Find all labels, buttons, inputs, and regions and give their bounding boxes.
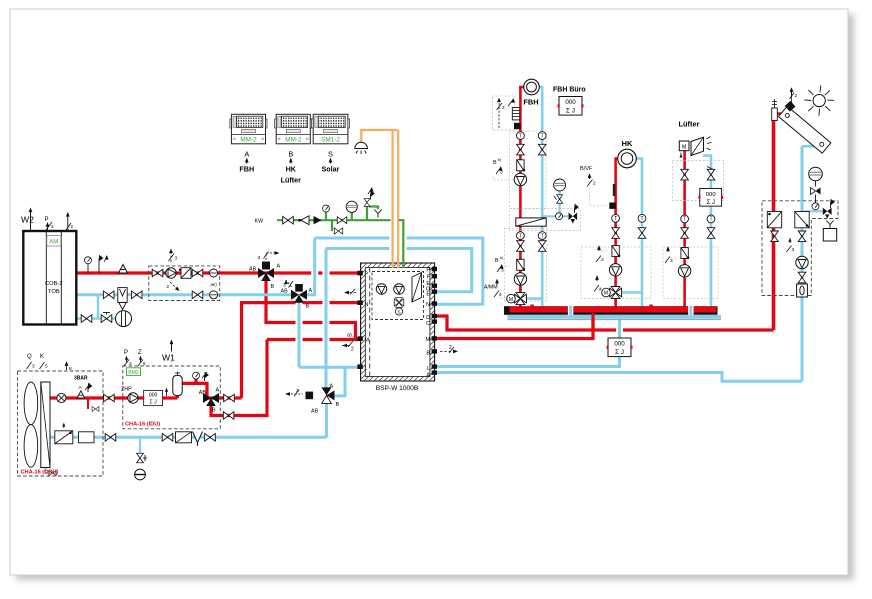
svg-text:M: M (509, 297, 513, 303)
svg-text:A: A (330, 384, 334, 390)
thermometer HK return (638, 214, 646, 222)
valve solar vessel (811, 188, 816, 195)
svg-text:a): a) (347, 333, 352, 339)
FBH overflow coil (512, 108, 519, 120)
valve Lüfter return top (707, 169, 715, 180)
svg-text:N: N (365, 302, 369, 308)
label HK 3 (598, 246, 600, 251)
svg-text:P: P (365, 272, 369, 278)
wire orange vertical 1 (389, 228, 395, 260)
thermometer FBH supply (517, 132, 525, 140)
svg-text:2: 2 (449, 345, 452, 351)
svg-text:B: B (426, 351, 430, 357)
check valve HK (612, 246, 620, 258)
svg-text:P: P (124, 350, 128, 356)
wire HK blue riser (636, 159, 642, 307)
svg-text:3: 3 (175, 256, 178, 261)
wire KW funnel elbow (369, 207, 378, 210)
valve ODU out (104, 394, 115, 402)
wire tank inner pump2 feed (388, 277, 412, 309)
funnel KW (374, 210, 382, 218)
valve Lüfter return (707, 228, 715, 239)
tank stratifier (412, 273, 422, 303)
svg-text:2: 2 (71, 224, 74, 229)
boiler gauge stub (87, 264, 89, 273)
valve Lüfter supply top (681, 169, 689, 180)
drain valve 3bar (92, 407, 99, 412)
tank right ports (432, 267, 437, 375)
wire ODU coil drain (46, 468, 48, 474)
svg-text:AB: AB (281, 289, 289, 295)
collector sensor diamond (785, 101, 796, 112)
manifold blue bar (508, 315, 722, 319)
valve boiler drain (81, 315, 92, 323)
motor M HK (602, 288, 611, 297)
meter IDU (142, 390, 163, 405)
zone box FBH upper (510, 131, 547, 209)
safety blue link (802, 210, 823, 212)
wire KW safety stub (366, 206, 368, 220)
gauge FBH (556, 213, 563, 220)
svg-text:N: N (426, 302, 430, 308)
node 2 boiler (67, 214, 69, 231)
svg-text:C: C (426, 321, 430, 327)
svg-text:3: 3 (792, 247, 795, 253)
valve solar red (771, 231, 779, 242)
meter Lüfter (698, 188, 723, 206)
wire KW drain stub (331, 220, 333, 231)
wire Lüfter blue riser (703, 156, 711, 307)
manifold black base (504, 306, 718, 315)
wire 3bar stub (87, 398, 89, 409)
wire tank A long return (436, 373, 802, 382)
tank right letters (426, 268, 431, 379)
svg-text:A: A (244, 150, 249, 159)
check valve HP return 1 (55, 431, 73, 444)
module MM-2 FBH (230, 114, 267, 144)
check valve KW (298, 219, 301, 222)
wire tank L left line (299, 366, 361, 369)
wire manifold to heat meter (618, 319, 621, 339)
wire FBH side branch (542, 215, 568, 217)
valve FBH supply (517, 144, 525, 155)
svg-text:Lüfter: Lüfter (281, 176, 302, 185)
svg-text:3: 3 (258, 255, 261, 261)
valve KW drain (334, 228, 342, 234)
leader B/VF to HK sensor (590, 188, 609, 206)
manifold red bar (510, 307, 717, 313)
zone box FBH lower (505, 229, 547, 302)
zone box Lüfter valves (673, 161, 724, 201)
tank left letters (365, 272, 370, 372)
wire green overlay tank top (402, 262, 404, 268)
filter HP return 2 (176, 432, 192, 443)
svg-text:BM2: BM2 (128, 370, 139, 376)
valve Lüfter supply (681, 228, 689, 239)
pump FBH primary (514, 173, 526, 185)
wire big blue vertical to V3.A (325, 249, 328, 390)
svg-text:S: S (397, 310, 400, 315)
IDU vent arrow (166, 389, 168, 397)
wire boiler return (77, 293, 293, 296)
thermometer HK supply (612, 214, 620, 222)
svg-text:4: 4 (499, 292, 502, 298)
svg-text:Z: Z (138, 350, 142, 356)
ODU drain valve (49, 470, 56, 475)
filter KW (314, 216, 322, 224)
valve V4.B shutoff (223, 412, 234, 420)
svg-text:4: 4 (599, 287, 602, 293)
svg-text:CHA-16 (IDU): CHA-16 (IDU) (125, 422, 160, 428)
pump FBH sec (514, 273, 526, 285)
svg-text:FBH: FBH (239, 165, 254, 174)
zone box FBH top (493, 96, 516, 130)
pump ZHP (128, 393, 138, 403)
check valve FBH sec (517, 259, 525, 271)
wire V3.B branch (334, 367, 345, 396)
gauge HP drain (135, 469, 146, 480)
wire IDU gauge stub (194, 379, 197, 384)
svg-text:Q: Q (27, 354, 32, 360)
valve KW 2 (337, 217, 347, 224)
air separator solar (772, 108, 778, 121)
valve boiler return 1 (103, 291, 114, 299)
vessel FBH (554, 179, 566, 191)
manifold blue crossing 2 (688, 306, 693, 316)
svg-text:2: 2 (593, 181, 596, 187)
wire orange vertical 2 (395, 228, 401, 260)
tank B arrow 2 (440, 350, 456, 352)
svg-text:W1: W1 (162, 353, 175, 363)
svg-text:S: S (328, 150, 333, 159)
wire solar module lamp link (361, 130, 398, 146)
svg-text:3: 3 (32, 364, 35, 369)
svg-text:ae): ae) (210, 282, 217, 287)
svg-text:3: 3 (501, 268, 504, 274)
svg-text:B: B (336, 402, 340, 408)
drain vessel solar (823, 229, 836, 242)
wire V3.AB drop (325, 401, 328, 437)
svg-text:FBH Büro: FBH Büro (553, 87, 586, 94)
module MM-2 HK (275, 114, 312, 144)
manifold red nub 1 (530, 305, 534, 308)
valve V1 (258, 268, 274, 281)
mixing valve FBH (514, 293, 526, 305)
svg-text:B: B (212, 408, 216, 414)
collector panel (779, 106, 831, 153)
wire V1.B drop (266, 279, 356, 339)
tank inner module box (372, 272, 424, 320)
wire second blue loop to tank E right (326, 249, 472, 292)
svg-text:E: E (426, 292, 430, 298)
svg-text:A: A (309, 288, 313, 294)
manifold shadow line (508, 319, 722, 321)
valve HP return 2 (162, 434, 173, 442)
svg-text:3: 3 (129, 361, 132, 366)
tank left ports (357, 271, 362, 369)
fan coil M box (679, 141, 689, 151)
valve V2 (291, 290, 307, 303)
tank wall (361, 263, 435, 381)
svg-text:8: 8 (69, 366, 72, 371)
leader FBH 4 (500, 292, 505, 299)
wire HK mix link (621, 291, 642, 294)
wire tank N line (242, 303, 362, 398)
tank mixing valve (394, 298, 404, 308)
svg-text:M: M (682, 145, 686, 151)
thermometer FBH return (538, 132, 546, 140)
safety valve solar (823, 208, 827, 215)
IDU box (123, 366, 221, 429)
svg-text:B/VF: B/VF (580, 166, 593, 172)
gauge boiler supply (85, 257, 92, 264)
svg-text:KW: KW (255, 219, 263, 225)
safety flag boiler (98, 264, 100, 273)
wire manifold to tank M (436, 314, 593, 339)
svg-text:2: 2 (167, 284, 170, 289)
safety valve A boiler (119, 265, 128, 274)
check valve mixer (181, 268, 191, 279)
valve boiler return 2 (131, 291, 142, 299)
tank M arrow 2 (342, 341, 353, 347)
svg-text:HK: HK (622, 139, 633, 148)
leader FBH 3 (493, 177, 514, 180)
wire FBH blue riser (539, 87, 542, 307)
leader FBH lower 3 (505, 265, 513, 267)
FBH circle symbol (524, 79, 540, 95)
valve HK return (638, 228, 646, 239)
svg-text:ZHP: ZHP (121, 387, 132, 393)
collector vent arrow 2 (791, 88, 793, 95)
svg-text:A: A (426, 373, 430, 379)
valve solar blue (798, 231, 806, 242)
gauge IDU (193, 372, 200, 379)
valve V4 (203, 393, 219, 406)
manifold red nub 2 (649, 305, 653, 308)
wire solar blue riser (801, 146, 804, 381)
manifold blue crossing 1 (568, 306, 573, 316)
valve HP return 1 (105, 434, 116, 442)
svg-text:B: B (271, 284, 275, 290)
funnel solar (826, 221, 833, 229)
valve V4.A shutoff (224, 394, 235, 402)
pump solar (796, 256, 808, 268)
tank pump 1 (376, 284, 387, 295)
svg-text:3: 3 (500, 170, 503, 176)
water meter (116, 311, 132, 327)
vessel IDU (173, 376, 182, 396)
svg-text:2: 2 (795, 93, 798, 99)
zone box Lüfter lower (663, 247, 718, 299)
wire tank M line (267, 338, 361, 341)
svg-text:A: A (277, 264, 281, 270)
svg-text:COB-2: COB-2 (45, 281, 63, 287)
FBH vent arrow 2 (498, 99, 500, 128)
label Lüfter 3 (667, 247, 669, 252)
svg-text:2: 2 (351, 347, 354, 353)
svg-text:AB: AB (249, 267, 257, 273)
wire IDU detour (178, 383, 220, 398)
svg-text:W2: W2 (21, 215, 34, 225)
fan air rays (707, 137, 712, 151)
wire solar riser (772, 120, 776, 330)
valve fill T (101, 315, 112, 323)
tank left mod arrow (345, 289, 356, 295)
zone box HK (581, 247, 651, 299)
svg-text:MM-2: MM-2 (285, 136, 302, 143)
strainer HP return (193, 432, 203, 443)
wire KW gauge stub (325, 212, 327, 220)
wire V4.A line (219, 396, 242, 399)
wire crossing x619 (616, 322, 623, 336)
svg-text:3BAR: 3BAR (74, 376, 88, 382)
sun (813, 95, 825, 107)
ODU fan blades (24, 382, 38, 425)
wire HK red riser (616, 159, 618, 307)
svg-text:L: L (427, 366, 430, 372)
wire FBH mix link (526, 297, 542, 300)
safety valve KW (364, 199, 370, 207)
boiler AM module (47, 236, 61, 247)
pump mixer (166, 268, 176, 278)
flow meter solar (797, 284, 808, 297)
gauge solar (812, 203, 819, 210)
wire KW line (277, 219, 391, 221)
ODU coil (41, 382, 50, 468)
leader HK 3 (601, 250, 608, 252)
wire V2.B drop (298, 300, 301, 367)
svg-text:B: B (306, 304, 310, 310)
valve mixer supply 2 (192, 269, 203, 277)
mixer arrow 2 (170, 282, 178, 290)
safety valve FBH (569, 213, 573, 221)
valve HK supply (612, 228, 620, 239)
svg-text:AB: AB (311, 409, 319, 415)
valve V3 (322, 387, 335, 403)
check valve Lüfter (681, 248, 689, 260)
safety valve A ODU (77, 391, 84, 398)
strainer boiler return (118, 288, 127, 303)
wire Lüfter red riser (683, 150, 686, 307)
valve KW 1 (283, 216, 294, 224)
valve mixer return (192, 291, 203, 299)
label solar 2 (789, 239, 791, 244)
svg-text:A/MM: A/MM (484, 285, 498, 291)
svg-text:5: 5 (45, 364, 48, 369)
mixer vent arrow 3 (170, 250, 172, 262)
valve FBH return (538, 144, 546, 155)
thermometer Lüfter return (707, 215, 715, 223)
pump Lüfter (678, 265, 690, 277)
wire tank L right to heat meter (436, 357, 620, 367)
wire collector return stub (802, 145, 825, 148)
svg-text:L: L (365, 366, 368, 372)
module SM1-2 Solar (312, 114, 350, 144)
svg-text:AB: AB (199, 390, 207, 396)
crossing casings: blue over red (299, 264, 620, 347)
wire collector feed (777, 112, 788, 115)
valve FBH sec return (538, 241, 546, 252)
vessel solar (809, 167, 823, 181)
leader Lüfter 3 (670, 257, 678, 259)
sensor FBH (514, 123, 521, 129)
wire drain tee (139, 437, 141, 453)
BM2 badge (127, 368, 141, 376)
svg-text:CHA-16 (ODU): CHA-16 (ODU) (21, 470, 59, 476)
svg-text:3: 3 (283, 283, 286, 289)
wire KW jump + drop (400, 228, 406, 260)
motor M FBH (507, 294, 516, 303)
valve HP return 3 (205, 434, 216, 442)
svg-text:TOB: TOB (48, 289, 60, 295)
svg-text:HK: HK (286, 165, 297, 174)
meter manifold (607, 338, 633, 357)
fan coil (691, 137, 704, 155)
svg-text:3: 3 (296, 388, 299, 394)
thermometer FBH sec return (538, 232, 546, 240)
svg-text:2: 2 (502, 105, 505, 111)
valve FBH vessel (557, 195, 563, 203)
filter HP return (79, 432, 95, 443)
svg-text:P: P (45, 217, 49, 223)
wire boiler fill group (77, 295, 115, 319)
sensor pocket return (210, 291, 218, 299)
valve mixer supply 1 (152, 269, 163, 277)
svg-text:3: 3 (601, 257, 604, 263)
wire FBH red riser (520, 87, 524, 307)
wire manifold drop overlay (591, 313, 594, 330)
svg-text:BSP-W 1000B: BSP-W 1000B (376, 385, 419, 392)
svg-text:B: B (493, 160, 497, 166)
wire heat pump supply (49, 396, 178, 399)
wire heat pump return (49, 436, 327, 439)
wire orange overlay tank top (392, 262, 394, 268)
flag IDU (205, 372, 209, 381)
wire V2.A to riser (305, 238, 315, 295)
svg-text:Lüfter: Lüfter (679, 120, 700, 129)
vessel KW (346, 201, 357, 212)
compressor symbol (57, 393, 66, 402)
mixer box (149, 266, 220, 301)
svg-text:A: A (216, 388, 220, 394)
solar station box (762, 201, 838, 296)
wire boiler supply to tank P (77, 271, 361, 274)
mixing valve HK (610, 287, 622, 299)
sensor pocket supply (210, 269, 218, 277)
svg-text:AM: AM (49, 240, 58, 246)
HK circle symbol (618, 149, 637, 168)
svg-text:MM-2: MM-2 (240, 136, 257, 143)
svg-text:K: K (40, 354, 44, 360)
heat exchanger FBH (516, 218, 546, 226)
svg-text:B: B (495, 258, 499, 264)
sensor HK (609, 203, 616, 209)
gauge KW (323, 205, 330, 212)
drain valve HP (137, 453, 144, 463)
label HK 4 (596, 276, 598, 281)
wire upper blue loop to tank N right (315, 238, 483, 304)
valve solar lower (798, 272, 806, 283)
check valve solar red (767, 212, 781, 228)
check valve solar blue (795, 212, 809, 228)
tank pump 2 (394, 284, 405, 295)
svg-text:M: M (604, 291, 608, 297)
lamp solar sensor (355, 142, 368, 148)
tank valve motor S (395, 308, 402, 315)
wire crossing x299 (296, 297, 303, 346)
svg-text:M: M (426, 337, 431, 343)
wire tank D to solar (436, 316, 774, 330)
